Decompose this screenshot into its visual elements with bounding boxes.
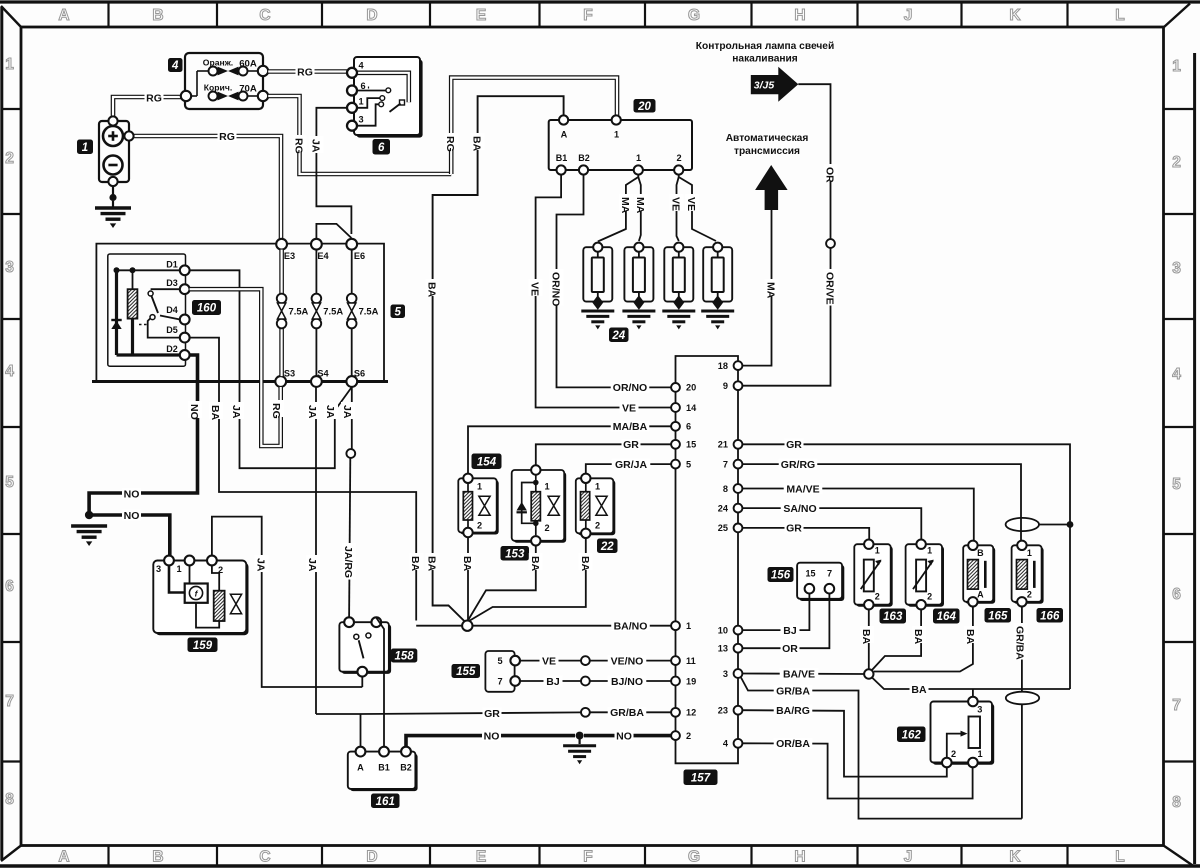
svg-text:C: C [259, 849, 270, 866]
svg-text:BA: BA [409, 556, 421, 572]
svg-text:BA: BA [912, 629, 924, 645]
tap oval to GR wire [1039, 524, 1070, 526]
wire SA/NO pin 24 to 164 [742, 508, 921, 539]
wire JA/RG fuse S6 to switch 158 [351, 387, 353, 449]
svg-text:154: 154 [477, 456, 497, 468]
connector 157 pin 20 [671, 383, 680, 392]
svg-text:164: 164 [937, 611, 957, 623]
switch 6 internal contact from pin 4 [357, 73, 409, 102]
connector 157 pin 2 [671, 731, 680, 740]
svg-text:3: 3 [1172, 260, 1181, 277]
ECU connector 157 frame [676, 356, 739, 763]
svg-text:2: 2 [875, 592, 880, 602]
svg-text:E6: E6 [354, 251, 365, 261]
svg-text:5: 5 [395, 306, 402, 318]
svg-text:F: F [583, 849, 592, 866]
switch 6 pins 4 6 1 3 [347, 68, 357, 78]
svg-text:F: F [583, 7, 592, 24]
wire BA/RG pin 23 to 162 pin 2 [742, 710, 947, 776]
svg-text:L: L [1115, 849, 1124, 866]
resistor 156 [799, 565, 844, 601]
svg-text:J: J [904, 849, 913, 866]
svg-text:A: A [58, 849, 69, 866]
connector 157 pin 24 [734, 504, 743, 513]
wire BA relay D5 down then right [190, 338, 417, 621]
wire BA/NO junction to pin 1 [416, 625, 462, 627]
svg-text:6: 6 [378, 142, 385, 154]
tag 159 [188, 638, 218, 653]
svg-text:BA: BA [529, 556, 541, 572]
svg-text:4: 4 [5, 363, 14, 380]
wire BA 163 down to junction BA/VE [868, 609, 870, 669]
terminal E6 [346, 239, 357, 250]
svg-text:OR/NO: OR/NO [550, 272, 562, 306]
diode switch 158 [342, 624, 392, 674]
svg-text:VE: VE [542, 655, 556, 667]
wire GR pin 25 to 163 [742, 528, 869, 540]
svg-text:BJ: BJ [783, 625, 797, 637]
svg-text:BA: BA [911, 684, 927, 696]
svg-text:6: 6 [1172, 586, 1181, 603]
wire MA timer pin 1 to glow plugs 1 2 [598, 175, 639, 242]
svg-text:1: 1 [595, 482, 600, 492]
svg-text:5: 5 [5, 474, 14, 491]
svg-text:3: 3 [977, 705, 982, 715]
svg-text:MA/BA: MA/BA [613, 421, 648, 433]
tag 1 [77, 140, 93, 155]
svg-text:OR: OR [824, 167, 836, 183]
upper oval connector [1006, 518, 1039, 531]
connector 157 pin 4 [734, 739, 743, 748]
svg-text:1: 1 [977, 749, 982, 759]
relay 160 contact [151, 288, 185, 290]
svg-text:A: A [58, 7, 69, 24]
wire JA relay D1 to S6 [190, 270, 352, 468]
svg-text:1: 1 [176, 564, 181, 574]
svg-text:163: 163 [883, 611, 903, 623]
svg-text:153: 153 [505, 548, 525, 560]
svg-text:JA: JA [341, 405, 353, 419]
svg-text:1: 1 [636, 153, 641, 163]
svg-text:8: 8 [5, 791, 14, 808]
svg-text:MA: MA [765, 282, 777, 299]
wire OR/BA pin 4 to 162 pin 1 [742, 743, 972, 798]
ignition switch 6 [357, 60, 423, 138]
relay 160 coil [128, 289, 138, 318]
glow plug timer 20 [549, 120, 692, 170]
svg-text:BA/RG: BA/RG [776, 705, 810, 717]
svg-text:трансмиссия: трансмиссия [734, 146, 800, 157]
svg-text:RG: RG [270, 403, 282, 419]
tag 4 [168, 58, 183, 72]
svg-text:NO: NO [484, 730, 500, 742]
page frame border [0, 0, 1200, 3]
wire jumper E4 to E6 [316, 224, 351, 239]
svg-text:162: 162 [902, 729, 922, 741]
svg-text:157: 157 [691, 772, 711, 784]
svg-text:E: E [476, 849, 486, 866]
tag 156 [768, 567, 794, 582]
svg-text:BA/NO: BA/NO [614, 620, 648, 632]
terminal E3 [276, 239, 287, 250]
svg-text:BA: BA [209, 405, 221, 421]
svg-text:C: C [259, 7, 270, 24]
terminal S4 [311, 376, 322, 387]
wire VE timer B1 to pin 14 [536, 175, 672, 408]
svg-text:4: 4 [358, 61, 364, 71]
inline connector BJ/NO [581, 677, 590, 686]
relay 160 dashed actuator link [139, 324, 149, 326]
fuse box 4 [185, 53, 263, 109]
wire JA ignition pin 1 down to E6 [316, 108, 351, 234]
svg-text:накаливания: накаливания [732, 54, 798, 65]
wire NO ground to sensor 159 pin 3 [89, 515, 170, 555]
lower oval connector [1006, 692, 1039, 705]
svg-text:14: 14 [686, 403, 697, 413]
wire BJ pin 10 to 156 pin 15 [742, 594, 809, 631]
ground battery [95, 206, 131, 209]
svg-text:NO: NO [124, 510, 140, 522]
svg-text:E4: E4 [317, 251, 329, 261]
wire BA/VE pin 3 to junction [742, 673, 864, 676]
svg-text:GR/BA: GR/BA [610, 707, 644, 719]
junction BA [462, 621, 472, 631]
svg-text:A: A [561, 130, 568, 140]
wire BA timer pin A down-left-down [433, 96, 564, 624]
svg-text:1: 1 [875, 546, 880, 556]
svg-text:6: 6 [686, 422, 691, 432]
svg-text:165: 165 [988, 610, 1008, 622]
svg-text:OR/BA: OR/BA [776, 738, 810, 750]
svg-text:D2: D2 [166, 344, 178, 354]
svg-text:21: 21 [718, 440, 728, 450]
svg-text:7: 7 [827, 569, 832, 579]
svg-text:8: 8 [723, 484, 728, 494]
svg-text:JA: JA [255, 558, 267, 572]
connector 157 pin 15 [671, 440, 680, 449]
svg-text:1: 1 [927, 546, 932, 556]
connector 157 pin 11 [671, 656, 680, 665]
sensor 165 [965, 547, 995, 604]
svg-text:6: 6 [360, 81, 365, 91]
svg-text:1: 1 [5, 56, 14, 73]
svg-text:B2: B2 [400, 763, 412, 773]
svg-text:7.5A: 7.5A [359, 306, 379, 317]
svg-text:4: 4 [1172, 366, 1181, 383]
tag 161 [371, 794, 400, 809]
ground glow plug 2 [622, 310, 655, 313]
wire GR/BA 166 down through lower oval [1021, 607, 1023, 819]
fuse 7.5A E4-S4 [315, 250, 317, 294]
relay 160 wire D1 row [117, 269, 181, 271]
svg-text:6: 6 [5, 578, 14, 595]
svg-text:2: 2 [676, 153, 681, 163]
svg-text:NO: NO [188, 404, 200, 420]
controller 161 [350, 754, 418, 791]
svg-text:H: H [794, 7, 805, 24]
tag 162 [897, 727, 926, 743]
svg-text:18: 18 [718, 361, 728, 371]
svg-text:JA/RG: JA/RG [342, 546, 354, 578]
svg-text:159: 159 [193, 640, 213, 652]
connector 157 pin 21 [734, 440, 743, 449]
svg-text:11: 11 [686, 656, 696, 666]
svg-text:7.5A: 7.5A [323, 306, 343, 317]
relay 160 wire D2 row [117, 353, 181, 356]
svg-text:Контрольная лампа свечей: Контрольная лампа свечей [696, 41, 834, 52]
svg-text:JA: JA [309, 139, 321, 153]
connector 157 pin 1 [671, 621, 680, 630]
arrow automatic transmission [755, 165, 788, 210]
svg-text:D: D [366, 7, 377, 24]
svg-text:S3: S3 [284, 369, 295, 379]
svg-text:NO: NO [124, 488, 140, 500]
svg-text:2: 2 [477, 521, 482, 531]
tag 20 [634, 99, 656, 113]
svg-text:B: B [977, 548, 984, 558]
svg-text:160: 160 [197, 303, 217, 315]
connector 157 pin 13 [734, 644, 743, 653]
svg-text:2: 2 [595, 521, 600, 531]
svg-text:10: 10 [718, 625, 728, 635]
connector 157 pin 5 [671, 460, 680, 469]
terminal S3 [275, 376, 286, 387]
svg-text:S6: S6 [354, 369, 365, 379]
tag 153 [501, 546, 530, 561]
svg-text:BA: BA [579, 556, 591, 572]
fuse 60A orange [209, 67, 218, 76]
tag 24 [609, 328, 629, 343]
svg-text:3: 3 [156, 564, 161, 574]
wire BA 165 down to junction [874, 607, 973, 672]
svg-text:GR/BA: GR/BA [776, 685, 810, 697]
svg-text:BJ/NO: BJ/NO [611, 676, 643, 688]
wire NO relay D2 to ground [89, 355, 197, 511]
wire BA sensor 153 to junction [467, 546, 536, 622]
svg-text:BA: BA [964, 629, 976, 645]
switch 6 internal contact pin 3 [357, 104, 379, 125]
svg-text:JA: JA [324, 405, 336, 419]
svg-text:166: 166 [1040, 610, 1060, 622]
wire switch 158 bottom pin down-left [361, 677, 363, 687]
wire RG battery to fuse box 4 [113, 97, 181, 117]
tag 155 [452, 664, 481, 678]
svg-text:OR: OR [782, 643, 798, 655]
wire VE timer pin 2 to glow plugs 3 4 [677, 175, 679, 241]
svg-text:JA: JA [306, 558, 318, 572]
svg-text:1: 1 [1172, 58, 1181, 75]
svg-text:1: 1 [82, 142, 88, 154]
svg-text:2: 2 [951, 749, 956, 759]
ground glow plug 3 [662, 310, 695, 313]
ground left [71, 524, 107, 527]
svg-text:GR: GR [484, 708, 500, 720]
svg-text:19: 19 [686, 676, 696, 686]
wire MA/VE pin 8 to 165 [742, 489, 974, 541]
wire NO row to pin 2 with ground [406, 736, 575, 747]
svg-text:GR: GR [786, 523, 802, 535]
svg-text:3: 3 [723, 669, 728, 679]
svg-text:VE/NO: VE/NO [611, 655, 644, 667]
fuse box terminals [181, 91, 191, 101]
wire BA sensor 154 to junction [467, 537, 469, 621]
svg-text:D4: D4 [166, 305, 178, 315]
svg-text:60A: 60A [239, 59, 257, 70]
wire 161 pin A up to GR row [360, 714, 362, 747]
wire RG fuse box down and right to relay box 20 [268, 96, 451, 174]
inline connector JA/RG [346, 449, 355, 458]
connector 157 pin 8 [734, 484, 743, 493]
relay 160 coil junction dots [130, 267, 136, 273]
svg-text:BA: BA [471, 136, 483, 152]
switch 6 internal contact pin 1 [357, 98, 380, 108]
svg-text:2: 2 [544, 523, 549, 533]
svg-text:5: 5 [1172, 476, 1181, 493]
glow plug 3 [664, 247, 693, 301]
washer fluid sensor 159 [156, 563, 249, 636]
svg-text:158: 158 [394, 651, 414, 663]
svg-text:K: K [1009, 849, 1021, 866]
wire VE row pin 5 to pin 11 [520, 660, 671, 662]
svg-text:L: L [1115, 7, 1124, 24]
svg-text:H: H [794, 849, 805, 866]
relay pins D1 D3 D4 D5 D2 [180, 265, 190, 275]
wire GR/JA pin 5 to sensor 22 [586, 464, 671, 474]
connector 157 pin 18 [734, 361, 743, 370]
svg-text:5: 5 [686, 459, 691, 469]
svg-text:22: 22 [600, 541, 614, 553]
battery 1 [99, 121, 129, 182]
svg-text:7.5A: 7.5A [289, 306, 309, 317]
svg-text:1: 1 [614, 130, 619, 140]
svg-text:RG: RG [444, 136, 456, 152]
svg-text:7: 7 [5, 693, 14, 710]
svg-text:25: 25 [718, 523, 728, 533]
svg-text:RG: RG [219, 131, 235, 143]
svg-text:S4: S4 [317, 369, 329, 379]
switch 6 internal contact pin 6 [357, 90, 386, 92]
svg-text:7: 7 [1172, 697, 1181, 714]
connector 157 pin 10 [734, 626, 743, 635]
svg-text:MA: MA [619, 197, 631, 214]
tag 5 [391, 305, 406, 319]
wire OR/VE to pin 9 [742, 248, 830, 386]
svg-text:E: E [476, 7, 486, 24]
svg-text:K: K [1009, 7, 1021, 24]
svg-text:OR/NO: OR/NO [613, 382, 647, 394]
wire GR pin 21 down right side [742, 444, 1070, 689]
wire BJ row pin 7 to pin 19 [520, 680, 671, 682]
terminal E4 [311, 239, 322, 250]
tag 160 [192, 300, 221, 315]
svg-text:D: D [366, 849, 377, 866]
svg-text:MA: MA [634, 197, 646, 214]
svg-text:B2: B2 [578, 153, 590, 163]
wire BA sensor 22 to junction [467, 538, 586, 622]
glow plug 4 [703, 247, 732, 301]
svg-text:OR/VE: OR/VE [824, 272, 836, 305]
glow plug 1 [583, 247, 612, 301]
wire OR/NO timer B2 to pin 20 [557, 175, 672, 388]
svg-text:B: B [152, 7, 163, 24]
svg-text:4: 4 [723, 739, 729, 749]
fuse 7.5A E3-S3 [279, 250, 284, 294]
svg-text:155: 155 [456, 666, 476, 678]
svg-text:3/J5: 3/J5 [754, 80, 775, 92]
svg-text:A: A [357, 763, 364, 773]
svg-text:E3: E3 [284, 251, 295, 261]
svg-text:2: 2 [686, 731, 691, 741]
wire stub to 162 pin 3 [972, 689, 974, 697]
glow plug 2 [624, 247, 653, 301]
wire MA/BA pin 6 to sensor 154 [468, 426, 671, 473]
svg-text:BA: BA [426, 556, 438, 572]
svg-text:5: 5 [497, 656, 502, 666]
svg-text:1: 1 [358, 97, 363, 107]
svg-text:4: 4 [171, 60, 179, 72]
svg-text:RG: RG [146, 92, 162, 104]
svg-text:9: 9 [723, 381, 728, 391]
connector 157 pin 7 [734, 460, 743, 469]
sensor 154 [460, 480, 498, 534]
junction BA/VE [864, 669, 873, 678]
sensor 153 [514, 472, 567, 543]
svg-text:GR/BA: GR/BA [1014, 626, 1026, 660]
svg-text:VE: VE [529, 282, 541, 296]
svg-text:BJ: BJ [546, 676, 560, 688]
fuse 7.5A E6-S6 [351, 250, 353, 294]
ground center [578, 739, 580, 744]
wire BA 164 down to junction [872, 609, 922, 670]
svg-text:BA: BA [426, 282, 438, 298]
svg-text:VE: VE [622, 402, 636, 414]
connector 157 pin 23 [734, 706, 743, 715]
svg-text:G: G [688, 849, 700, 866]
wire GR pin 15 to sensor 153 [536, 444, 671, 465]
ground glow plug 4 [701, 310, 734, 313]
svg-text:1: 1 [1027, 548, 1032, 558]
connector 157 pin 9 [734, 381, 743, 390]
svg-text:D5: D5 [166, 325, 178, 335]
svg-text:GR: GR [623, 439, 639, 451]
svg-text:161: 161 [376, 796, 395, 808]
svg-text:2: 2 [927, 592, 932, 602]
sensor 155 [485, 651, 514, 692]
svg-text:13: 13 [718, 644, 728, 654]
tag 22 [597, 539, 618, 554]
svg-text:Корич.: Корич. [204, 83, 232, 93]
wire BA junction to 162 and GR wire [872, 678, 1070, 690]
svg-text:3: 3 [5, 259, 14, 276]
svg-text:BA: BA [461, 556, 473, 572]
svg-text:20: 20 [686, 383, 696, 393]
connector arrow 3/J5 [751, 67, 799, 102]
wire OR pin 13 to 156 pin 7 [742, 594, 829, 649]
wire MA transmission to pin 18 [742, 210, 771, 366]
frame grid ticks [107, 2, 109, 27]
connector 157 pin 12 [671, 708, 680, 717]
sensor 163 [856, 546, 892, 607]
svg-text:GR/JA: GR/JA [615, 459, 648, 471]
svg-text:Автоматическая: Автоматическая [726, 133, 809, 144]
wire GR row to pin 12 [316, 713, 361, 715]
terminal S6 [346, 376, 357, 387]
wire switch 158 right pin down to 161 B1 [376, 618, 384, 747]
svg-text:GR/RG: GR/RG [781, 459, 815, 471]
svg-text:MA/VE: MA/VE [786, 483, 819, 495]
wire OR from 3/J5 arrow [798, 84, 830, 239]
svg-text:70A: 70A [239, 84, 257, 95]
